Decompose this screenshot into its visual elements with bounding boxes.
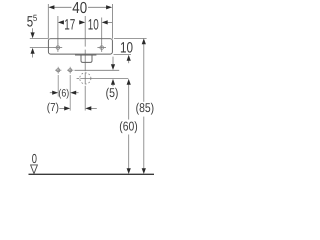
ref line basin bottom extended right (y=54.6)	[114, 54, 132, 56]
drain line extended right (y=78.6)	[80, 78, 128, 80]
arrow 17 right	[79, 20, 85, 24]
trap flange	[75, 54, 96, 56]
arrow (6) left-pointing	[70, 91, 76, 95]
svg-text:40: 40	[72, 0, 87, 17]
dim 5.5 up arrow tail	[32, 53, 34, 58]
tap hole crosshair left arms	[54, 47, 63, 49]
arrow (85) bottom down	[142, 168, 146, 174]
dim (7) arrow tails	[59, 107, 64, 109]
trap U body	[81, 55, 92, 62]
arrow (6) right-pointing	[52, 91, 58, 95]
svg-text:17: 17	[64, 16, 75, 33]
ref line tap plane left (y=47.5)	[30, 47, 54, 49]
drain trap circle dashed	[80, 73, 91, 84]
dimension 10 top tail	[107, 21, 112, 23]
svg-text:(5): (5)	[106, 85, 119, 100]
svg-text:0: 0	[32, 151, 37, 166]
fixation centerline dashed left (x=58.2)	[57, 75, 59, 97]
arrow (85) top up	[142, 38, 146, 44]
svg-text:(85): (85)	[136, 100, 155, 115]
extension line basin right edge (x=112.4)	[111, 4, 113, 39]
dim (85) line	[143, 44, 145, 102]
dim (5) up arrow tail	[112, 84, 114, 86]
svg-text:(7): (7)	[47, 102, 59, 114]
arrow 10 top left-pointing	[102, 20, 108, 24]
arrow (60) bottom down	[127, 168, 131, 174]
extension line tap hole left (x=57.9)	[57, 16, 59, 44]
arrow 17 left	[58, 20, 64, 24]
arrow (7) left-pointing	[85, 106, 91, 110]
arrow 40 left	[48, 5, 54, 9]
ref line basin top extended right (y=38.5)	[114, 38, 147, 40]
arrow 5.5 up	[31, 48, 35, 54]
dim 5.5 down arrow tail	[32, 28, 34, 33]
extension line tap hole right (x=101.7)	[101, 18, 103, 44]
dim (6) arrow tails	[50, 92, 53, 94]
fixation centerline dashed right (x=70.2)	[69, 75, 71, 111]
svg-text:5: 5	[33, 13, 37, 23]
tap hole circle right	[100, 46, 104, 50]
drain centerline segments	[84, 39, 86, 46]
dim 10 bottom arrow tail (x=128.7)	[128, 60, 130, 63]
tap hole crosshair right arms	[97, 47, 106, 49]
svg-text:(6): (6)	[58, 87, 69, 99]
arrow 40 right	[106, 5, 112, 9]
arrow (7) right-pointing	[64, 106, 70, 110]
arrow 10dim bottom up	[127, 55, 131, 61]
svg-text:(60): (60)	[119, 119, 138, 134]
fixation crosshair left	[55, 69, 61, 71]
extension line basin left edge (x=48.3)	[47, 4, 49, 39]
extension line drain center (x=85.2)	[84, 16, 86, 39]
svg-text:10: 10	[120, 40, 133, 57]
arrow (60) top up	[127, 79, 131, 85]
ref line rim top left (y=38.5)	[30, 38, 49, 40]
svg-text:10: 10	[88, 16, 99, 33]
arrow 5.5 down	[31, 32, 35, 38]
datum triangle	[31, 165, 38, 174]
dim (5) down arrow tail	[112, 57, 114, 65]
tap hole circle left	[56, 46, 60, 50]
fixation line extended right (y=70.3)	[75, 69, 120, 71]
fixation crosshair right	[67, 69, 73, 71]
drain line left dash	[77, 78, 80, 80]
arrow (5) down	[111, 64, 115, 70]
basin outline	[48, 39, 112, 54]
dim (60) line	[128, 84, 130, 120]
dimension 40 line	[54, 6, 72, 8]
arrow (5) up	[111, 79, 115, 85]
floor line	[29, 173, 155, 175]
